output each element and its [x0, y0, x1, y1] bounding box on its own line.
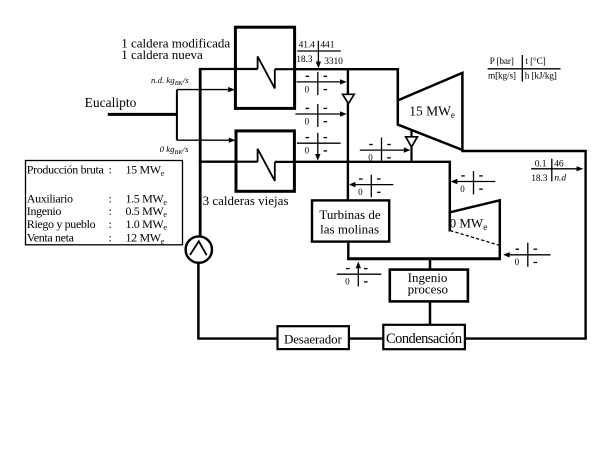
- wire ingenio feed: [429, 259, 432, 270]
- svg-text:0: 0: [368, 153, 373, 163]
- box Condensacion: [383, 325, 465, 349]
- wire small turbine inlet: [449, 161, 452, 231]
- svg-text:proceso: proceso: [408, 282, 448, 297]
- svg-text:h [kJ/kg]: h [kJ/kg]: [525, 71, 557, 81]
- wire fuel branch to old boilers: [177, 139, 230, 141]
- node steam after valve V1: [295, 104, 341, 127]
- svg-text::: :: [109, 162, 112, 176]
- wire eucalipto fuel line: [108, 113, 177, 116]
- svg-text:0: 0: [305, 116, 310, 126]
- wire through-line B1 left: [235, 68, 257, 70]
- svg-text:3310: 3310: [324, 57, 343, 67]
- node molinas turbine inlet: [354, 175, 393, 198]
- valve V2: [406, 137, 418, 147]
- svg-text:3 calderas viejas: 3 calderas viejas: [203, 193, 289, 208]
- svg-text:46: 46: [554, 159, 564, 169]
- wire process steam line: [347, 257, 501, 260]
- node old boiler steam: [297, 133, 341, 155]
- wire turbine exhaust: [461, 150, 587, 152]
- wire feed to old boilers: [199, 161, 258, 163]
- svg-text:m[kg/s]: m[kg/s]: [488, 71, 516, 81]
- svg-text::: :: [109, 204, 112, 218]
- wire feed to top boiler: [199, 68, 258, 70]
- svg-text:1 caldera nueva: 1 caldera nueva: [121, 47, 203, 62]
- svg-text:15 MWe: 15 MWe: [409, 104, 455, 121]
- svg-text:Producción bruta: Producción bruta: [27, 162, 105, 176]
- wire feedwater riser: [199, 69, 202, 236]
- box Turbinas de las molinas: [312, 200, 389, 241]
- heater zigzag B2: [258, 149, 275, 181]
- node small turbine inlet: [456, 171, 495, 194]
- svg-text:Venta neta: Venta neta: [27, 230, 75, 244]
- svg-text:t [°C]: t [°C]: [526, 56, 546, 67]
- pump P1 circle: [186, 236, 212, 262]
- svg-text:41.4: 41.4: [299, 41, 316, 51]
- wire condensate bottom line: [197, 337, 587, 339]
- turbine T2 solid edges: [450, 200, 500, 258]
- svg-text::: :: [109, 217, 112, 231]
- svg-text:0: 0: [460, 184, 465, 194]
- svg-text:0.1: 0.1: [535, 159, 547, 169]
- wire pump suction: [197, 263, 200, 339]
- wire right downcomer: [584, 151, 586, 339]
- wire through-line B2 left: [236, 161, 258, 163]
- boiler B1 (caldera nueva): [235, 27, 294, 108]
- svg-text:Condensación: Condensación: [386, 331, 462, 347]
- value table condenser 0.1/46 18.3/n.d.: [531, 159, 583, 185]
- pump P1 chevron: [190, 241, 207, 255]
- svg-text:0: 0: [345, 277, 350, 287]
- turbine T2 dashed bottom edge: [450, 231, 500, 246]
- wire old boiler steam line: [275, 161, 450, 163]
- svg-text:Turbinas de: Turbinas de: [319, 207, 381, 222]
- wire fuel split: [176, 90, 178, 141]
- node process steam: [337, 267, 382, 287]
- wire through-line B2 right: [275, 161, 295, 163]
- svg-text:Ingenio: Ingenio: [27, 204, 62, 218]
- heater zigzag B1: [258, 56, 275, 88]
- svg-text:Desaerador: Desaerador: [284, 332, 343, 347]
- svg-text:0: 0: [515, 257, 520, 267]
- wire main steam header: [275, 68, 398, 70]
- wire ingenio outlet: [429, 301, 432, 326]
- svg-text:441: 441: [320, 41, 334, 51]
- box Desaerador: [278, 326, 349, 349]
- svg-text:12 MWe: 12 MWe: [126, 230, 165, 245]
- wire through-line B1 right: [275, 68, 295, 70]
- legend P t m h: [488, 55, 561, 82]
- svg-text:n.d: n.d: [554, 174, 566, 184]
- wire turbinas outlet: [347, 242, 349, 259]
- wire bypass down line: [347, 68, 349, 201]
- svg-text:0: 0: [305, 146, 310, 156]
- svg-text:0: 0: [358, 187, 363, 197]
- node steam before valve V1: [297, 72, 342, 95]
- box Ingenio proceso: [390, 270, 468, 302]
- production table box: [26, 161, 183, 245]
- wire turbine extraction: [410, 130, 412, 162]
- turbine T2 0 MW body: [450, 200, 500, 257]
- value table main steam 41.4/441 18.3/3310: [296, 41, 343, 69]
- wire turbine inlet: [396, 68, 399, 102]
- svg-text:Riego y pueblo: Riego y pueblo: [27, 217, 96, 231]
- svg-text::: :: [109, 230, 112, 244]
- svg-text:18.3: 18.3: [296, 55, 313, 65]
- svg-text:0: 0: [305, 84, 310, 94]
- svg-text:18.3: 18.3: [531, 174, 548, 184]
- wire fuel branch to new boiler: [177, 89, 230, 91]
- svg-text:Eucalipto: Eucalipto: [85, 95, 137, 110]
- boiler B2 (calderas viejas): [236, 131, 294, 191]
- node small turbine exhaust: [509, 243, 551, 267]
- svg-text:las molinas: las molinas: [320, 222, 379, 237]
- node extraction steam: [360, 138, 405, 161]
- valve V1: [343, 94, 355, 103]
- svg-text:15 MWe: 15 MWe: [126, 162, 165, 177]
- svg-text:P [bar]: P [bar]: [490, 57, 514, 67]
- svg-text:0 MWe: 0 MWe: [450, 216, 488, 233]
- turbine T1 15 MW: [398, 73, 463, 150]
